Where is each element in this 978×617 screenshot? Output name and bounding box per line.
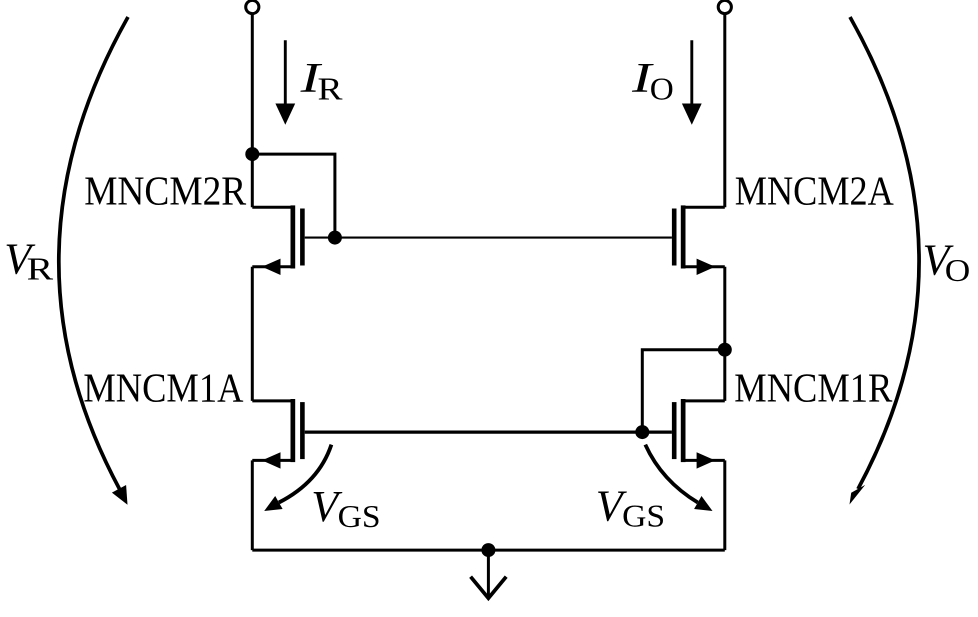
svg-text:MNCM2R: MNCM2R: [84, 168, 247, 214]
svg-text:GS: GS: [622, 499, 665, 534]
svg-text:R: R: [318, 72, 343, 107]
svg-text:O: O: [650, 72, 674, 107]
svg-text:GS: GS: [338, 499, 381, 534]
svg-text:MNCM1A: MNCM1A: [83, 365, 243, 411]
svg-text:MNCM1R: MNCM1R: [734, 365, 893, 411]
svg-text:O: O: [945, 253, 971, 288]
svg-text:R: R: [27, 252, 54, 287]
svg-text:MNCM2A: MNCM2A: [735, 168, 894, 214]
